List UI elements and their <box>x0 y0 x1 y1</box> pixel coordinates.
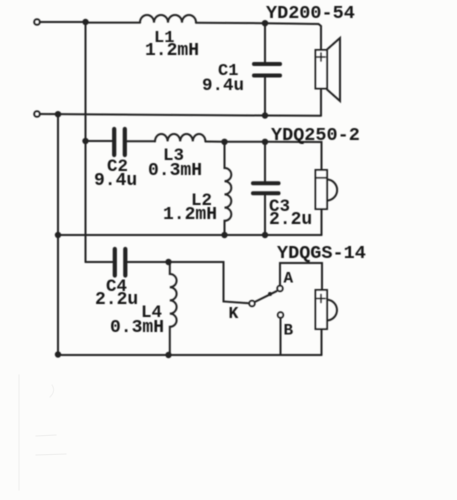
L1 label <box>145 29 199 61</box>
speaker midrange U2 <box>316 170 328 209</box>
svg-text:1.2mH: 1.2mH <box>163 205 217 225</box>
node rail-left row2 <box>55 232 61 238</box>
wire bottom rail row2 <box>58 234 322 236</box>
scan smudge page edge <box>19 375 66 490</box>
inductor L3 <box>155 134 205 141</box>
node M (L2 top) <box>221 139 227 145</box>
wire + bus corner to C4 <box>86 261 113 263</box>
inductor L2 <box>225 142 232 235</box>
C4 label <box>95 277 138 310</box>
wire node to L1 <box>86 22 141 24</box>
capacitor C2 <box>112 129 116 155</box>
L4 label <box>110 303 164 338</box>
C3 label <box>269 197 312 230</box>
wire A to tweeter top <box>280 263 322 290</box>
input terminal - (second) <box>34 111 39 116</box>
node C1 top <box>262 20 268 26</box>
speaker YDQ250-2 label <box>271 125 360 146</box>
node L4 bottom <box>165 352 171 358</box>
terminal B <box>278 312 283 317</box>
svg-text:9.4u: 9.4u <box>202 76 244 96</box>
L3 label <box>148 146 202 181</box>
inductor L4 <box>170 262 177 355</box>
capacitor C3 <box>264 142 266 181</box>
node L4 top <box>165 259 171 265</box>
node C2 feed <box>82 138 88 144</box>
wire C4 to node <box>128 261 169 263</box>
speaker woofer U1 <box>316 50 328 89</box>
B label <box>284 322 294 340</box>
wire node to woofer <box>265 23 321 50</box>
wire L3 to node M <box>205 141 224 143</box>
input terminal + (top) <box>34 19 39 24</box>
node C3 top <box>262 139 268 145</box>
svg-text:1.2mH: 1.2mH <box>145 41 199 61</box>
capacitor C4 <box>113 249 117 276</box>
wire L1 to C1 node <box>196 22 265 24</box>
switch contact dot <box>268 292 272 296</box>
inductor L1 <box>140 15 196 23</box>
wire ground bus vertical <box>57 114 59 355</box>
node C1 bottom <box>262 112 268 118</box>
wire + bus vertical <box>85 22 87 262</box>
switch K pivot <box>249 301 254 306</box>
switch K label <box>229 304 239 323</box>
wire node to switch corner <box>169 262 249 303</box>
wire node M to C3 node <box>225 141 266 143</box>
svg-text:0.3mH: 0.3mH <box>110 318 164 338</box>
svg-text:K: K <box>229 304 239 323</box>
node ground-left row1 <box>55 111 61 117</box>
terminal A <box>277 286 282 291</box>
node L2 bottom <box>221 232 227 238</box>
svg-text:B: B <box>284 322 294 340</box>
speaker YDQGS-14 label <box>277 243 366 264</box>
C2 label <box>94 157 137 191</box>
L2 label <box>163 191 217 225</box>
wire node to C2 <box>86 140 113 142</box>
node junction top-left <box>82 19 88 25</box>
node C3 bottom <box>262 232 268 238</box>
svg-text:YDQGS-14: YDQGS-14 <box>277 243 366 264</box>
wire bottom rail row3 <box>58 354 322 356</box>
wire bottom rail row1 <box>40 114 321 116</box>
C1 label <box>202 62 244 96</box>
node rail-left row3 <box>55 351 61 357</box>
capacitor C1 <box>264 23 266 62</box>
svg-text:9.4u: 9.4u <box>94 171 137 191</box>
svg-text:0.3mH: 0.3mH <box>148 161 202 181</box>
speaker tweeter U3 <box>316 290 328 329</box>
wire C2 to L3 <box>127 140 155 142</box>
svg-text:2.2u: 2.2u <box>95 290 138 310</box>
wire terminal+ to node <box>40 21 82 23</box>
svg-text:YD200-54: YD200-54 <box>266 3 355 24</box>
speaker YD200-54 label <box>266 3 355 24</box>
wire B to rail <box>280 318 282 355</box>
switch K lever <box>255 291 277 302</box>
wire C3 node to mid speaker <box>265 142 322 170</box>
svg-text:YDQ250-2: YDQ250-2 <box>271 125 360 146</box>
svg-text:2.2u: 2.2u <box>269 210 312 230</box>
svg-text:A: A <box>284 270 294 288</box>
A label <box>284 270 294 288</box>
